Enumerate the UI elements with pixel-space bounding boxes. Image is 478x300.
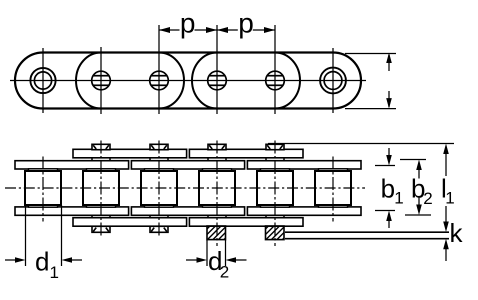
pin heads (riveted) top, pins 2-5 xyxy=(92,144,284,149)
svg-text:2: 2 xyxy=(220,263,229,282)
svg-text:k: k xyxy=(450,218,464,248)
roller 1 xyxy=(25,169,61,207)
outer plate (pins 2-3) bottom xyxy=(73,218,187,227)
pin 4 circle with chords xyxy=(208,71,227,90)
pin 6 vertical centerline xyxy=(332,48,334,113)
svg-text:1: 1 xyxy=(50,263,59,282)
inner plate (pins 5-6) bottom xyxy=(247,207,361,215)
svg-text:2: 2 xyxy=(423,189,432,208)
svg-text:1: 1 xyxy=(394,189,403,208)
svg-text:p: p xyxy=(180,8,196,39)
link plate cap arc at pin 3 (right facing) xyxy=(159,53,184,109)
pin 4 centerline xyxy=(216,141,218,247)
outer plate (pins 4-5) bottom xyxy=(189,218,303,227)
svg-text:1: 1 xyxy=(445,189,454,208)
svg-text:b: b xyxy=(381,174,395,204)
pin heads bottom, pins 2-3 xyxy=(92,226,168,232)
svg-text:d: d xyxy=(35,247,49,277)
center lines, top view xyxy=(10,25,366,114)
roller 2 xyxy=(83,169,119,207)
pin 3 centerline xyxy=(158,141,160,239)
right side width dimension (top view) xyxy=(345,54,396,109)
chain outer plate outline (stadium) xyxy=(15,53,361,109)
pitch dimension p (left) xyxy=(159,29,275,31)
inner plate (pins 1-2) top xyxy=(15,161,129,169)
outer plate (pins 4-5) top xyxy=(189,149,303,158)
inner link plates (near side) xyxy=(15,149,361,226)
roller 6 xyxy=(315,169,351,207)
pin 5 vertical centerline / extension xyxy=(274,25,276,114)
horizontal centerline xyxy=(10,80,366,82)
hatch lines on extended pin ends (pins 4-5) xyxy=(207,226,284,240)
inner plate (pins 5-6) top xyxy=(247,161,361,169)
pin 2 centerline xyxy=(100,141,102,239)
pin 3 circle with chords xyxy=(150,71,169,90)
pin 5 centerline xyxy=(274,141,276,247)
link plate cap arc at pin 4 (left facing) xyxy=(192,53,217,109)
dimension k (pin protrusion) xyxy=(285,232,449,239)
svg-text:p: p xyxy=(238,8,254,39)
pin 1 vertical centerline xyxy=(42,48,44,113)
link plate cap arc at pin 5 (right facing) xyxy=(275,53,300,109)
outer (pin link) plate (pins 2-3) top xyxy=(73,149,187,158)
dimension d1 (roller diameter) xyxy=(5,205,82,266)
bushing collars between plates at pins 2-5 xyxy=(92,158,284,219)
pin 2 vertical centerline xyxy=(100,47,102,114)
roller 5 xyxy=(257,169,293,207)
roller 3 xyxy=(141,169,177,207)
inner plate (pins 3-4) top xyxy=(131,161,244,169)
pin 6 centerline xyxy=(332,157,334,222)
pin 4 vertical centerline / extension xyxy=(216,25,218,114)
extended hatched pin ends bottom, pins 4-5 xyxy=(207,226,284,240)
pin 1 bushing circles xyxy=(30,68,55,93)
dimension d2 (pin diameter) xyxy=(186,240,247,266)
pin 3 vertical centerline / extension xyxy=(158,25,160,114)
rollers with flanges at each pin xyxy=(25,169,351,207)
centerlines bottom view xyxy=(5,141,365,247)
pin 5 circle with chords xyxy=(266,71,285,90)
top extension line from pin head xyxy=(268,143,454,145)
pin 6 bushing circles xyxy=(320,68,346,94)
horizontal centerline xyxy=(5,187,365,189)
pin 1 centerline xyxy=(42,157,44,222)
link plate cap arc at pin 2 (left facing) xyxy=(76,53,101,109)
dimension b1 xyxy=(375,148,395,228)
inner plate (pins 1-2) bottom xyxy=(15,207,129,215)
inner plate (pins 3-4) bottom xyxy=(131,207,244,215)
dimension l1 xyxy=(268,144,454,225)
pin 2 circle with chords xyxy=(92,71,111,90)
roller 4 xyxy=(199,169,235,207)
dimension b2 xyxy=(400,160,431,216)
